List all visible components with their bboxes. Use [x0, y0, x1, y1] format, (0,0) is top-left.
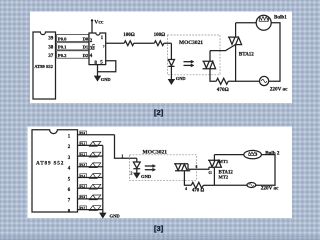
- svg-text:P1.7: P1.7: [80, 207, 86, 210]
- ac source V2 220V: [247, 183, 256, 188]
- LED D1 in optocoupler: [168, 60, 174, 67]
- svg-text:AT89 S52: AT89 S52: [36, 161, 64, 167]
- wire row P1.7: [78, 209, 103, 211]
- svg-text:P1.1: P1.1: [80, 143, 86, 146]
- wire R3 to triac and source: [228, 80, 259, 82]
- wire R4 to triac Q2: [203, 184, 214, 186]
- svg-text:BTA12: BTA12: [239, 52, 254, 57]
- driver chip U2: [89, 33, 106, 65]
- svg-text:7: 7: [103, 45, 105, 49]
- ground G4: [134, 173, 139, 177]
- net label box P0.1/D1: [57, 43, 89, 50]
- wire opto pin6 to gate G: [188, 164, 209, 170]
- load component LS1: [89, 142, 101, 147]
- load component LS6: [89, 195, 101, 200]
- wire U2 pin8 to ground: [97, 65, 99, 77]
- microcontroller U1 AT89S52: [33, 32, 56, 99]
- svg-text:P1.4: P1.4: [80, 175, 86, 178]
- load component LS7: [89, 206, 101, 211]
- svg-text:Vcc: Vcc: [94, 19, 104, 25]
- svg-text:38: 38: [48, 46, 54, 51]
- load component LS2: [89, 152, 101, 157]
- wire bulb to source right side: [269, 23, 280, 82]
- svg-text:P0.1: P0.1: [58, 45, 67, 50]
- load component LS5: [89, 184, 101, 189]
- optocoupler U3 dashed outline: [168, 35, 221, 75]
- svg-text:GND: GND: [101, 77, 111, 82]
- svg-text:D1: D1: [83, 45, 89, 50]
- bottom edge shading: [0, 236, 320, 240]
- panel figure 2 background: [30, 12, 292, 104]
- wire P1.0 to optocoupler U5: [115, 135, 137, 159]
- svg-text:AT89 S52: AT89 S52: [34, 64, 53, 69]
- svg-text:MOC3021: MOC3021: [179, 40, 203, 46]
- wire triac Q2 MT1 up: [213, 155, 215, 161]
- optocoupler U5 dashed outline: [130, 155, 197, 181]
- net label box P1.0: [80, 131, 87, 135]
- svg-text:2: 2: [130, 171, 132, 176]
- net label box P1.6: [80, 195, 87, 199]
- svg-text:100Ω: 100Ω: [154, 33, 166, 38]
- net label box P1.5: [80, 185, 87, 189]
- net label box P1.1: [80, 142, 87, 146]
- svg-text:[3]: [3]: [154, 224, 164, 233]
- microcontroller U4 AT89S52: [32, 130, 78, 212]
- svg-text:P1.3: P1.3: [80, 164, 86, 167]
- net label box P1.7: [80, 206, 87, 210]
- net label box P1.3: [80, 163, 87, 167]
- wire bulb B2 right side: [256, 155, 275, 186]
- svg-text:470 Ω: 470 Ω: [192, 189, 204, 194]
- wire triac to bulb: [236, 22, 257, 24]
- wire row P1.6: [78, 198, 103, 200]
- light arrow 3: [145, 165, 156, 168]
- svg-text:P0.0: P0.0: [58, 36, 67, 41]
- wire R2 to LED anode: [164, 43, 172, 59]
- svg-text:Bulb 2: Bulb 2: [265, 151, 280, 156]
- svg-text:MOC3021: MOC3021: [143, 150, 168, 156]
- wire triac Q1 MT1 down: [235, 45, 237, 82]
- wire triac to bulb B2: [214, 154, 243, 156]
- svg-text:P1.6: P1.6: [80, 196, 86, 199]
- load component LS4: [89, 174, 101, 179]
- svg-text:220V ac: 220V ac: [270, 86, 288, 92]
- svg-text:GND: GND: [110, 213, 121, 218]
- svg-text:100Ω: 100Ω: [123, 33, 135, 38]
- svg-text:G: G: [208, 170, 212, 175]
- triac Q2 BTA12: [208, 160, 222, 167]
- wire row P1.3: [78, 166, 103, 168]
- svg-text:D0: D0: [83, 36, 89, 41]
- svg-text:[2]: [2]: [154, 108, 164, 117]
- svg-text:GND: GND: [176, 76, 186, 81]
- wire source V2 to triac: [214, 184, 247, 186]
- wire row P1.0: [78, 134, 115, 136]
- wire U2 pin7 to R1: [106, 42, 125, 44]
- svg-text:MT2: MT2: [219, 175, 229, 180]
- wire LED D2 cathode to ground: [136, 169, 138, 174]
- triac Q1 BTA12: [228, 37, 242, 45]
- svg-text:P1.5: P1.5: [80, 186, 86, 189]
- ground bus wire: [102, 145, 104, 213]
- resistor R4 470ohm: [191, 182, 203, 188]
- svg-text:37: 37: [48, 54, 54, 59]
- wire LED cathode to ground: [170, 66, 172, 79]
- wire row P1.2: [78, 155, 103, 157]
- light arrow 2: [184, 64, 195, 67]
- net label box P0.2/D2: [57, 51, 89, 58]
- wire R1 to R2: [134, 42, 155, 44]
- ground G2: [95, 76, 100, 80]
- svg-text:D2: D2: [83, 53, 89, 58]
- svg-text:470Ω: 470Ω: [217, 87, 229, 93]
- ac source V1 220V: [260, 76, 269, 85]
- wire opto pin4 down: [210, 69, 216, 82]
- net label box P0.0/D0: [57, 35, 89, 42]
- net label box P1.2: [80, 152, 87, 156]
- resistor R2 100ohm: [154, 41, 164, 46]
- bulb B1: [256, 15, 271, 30]
- svg-text:1: 1: [121, 153, 123, 158]
- wire row P1.4: [78, 177, 103, 179]
- load component LS3: [89, 163, 101, 168]
- resistor R3 470ohm: [216, 78, 228, 84]
- svg-text:MT1: MT1: [219, 159, 229, 164]
- svg-text:L361: L361: [92, 44, 95, 51]
- svg-text:Bulb1: Bulb1: [274, 15, 287, 20]
- panel figure 3 background: [28, 127, 293, 219]
- wire triac Q1 MT2 to top: [235, 23, 237, 37]
- svg-text:6: 6: [196, 165, 198, 169]
- opto-triac detector U3 output: [203, 61, 217, 69]
- svg-text:220V ac: 220V ac: [261, 186, 279, 192]
- ground G3: [100, 213, 105, 217]
- svg-text:P1.2: P1.2: [80, 153, 86, 156]
- bulb B2: [244, 150, 262, 158]
- wire row P1.1: [78, 144, 103, 146]
- wire row P1.5: [78, 187, 103, 189]
- wire opto pin6 to gate: [210, 45, 235, 62]
- Vcc dot: [91, 19, 93, 21]
- svg-text:P0.2: P0.2: [58, 53, 67, 58]
- wire U2 pin5 loop: [98, 61, 116, 72]
- ground G1: [169, 80, 174, 84]
- Vcc wire: [91, 20, 93, 33]
- svg-text:39: 39: [48, 37, 54, 42]
- LED D2 in optocoupler: [133, 158, 140, 169]
- light arrow 4: [145, 168, 156, 171]
- svg-text:4: 4: [185, 186, 187, 191]
- resistor R1 100ohm: [124, 41, 134, 46]
- wire triac Q2 MT2 down: [213, 167, 215, 185]
- wire opto pin4 down: [184, 171, 191, 186]
- light arrow 1: [184, 60, 195, 63]
- svg-text:GND: GND: [141, 174, 152, 179]
- net label box P1.4: [80, 174, 87, 178]
- svg-text:P1.0: P1.0: [80, 132, 86, 135]
- opto-triac detector U5 output: [174, 164, 190, 171]
